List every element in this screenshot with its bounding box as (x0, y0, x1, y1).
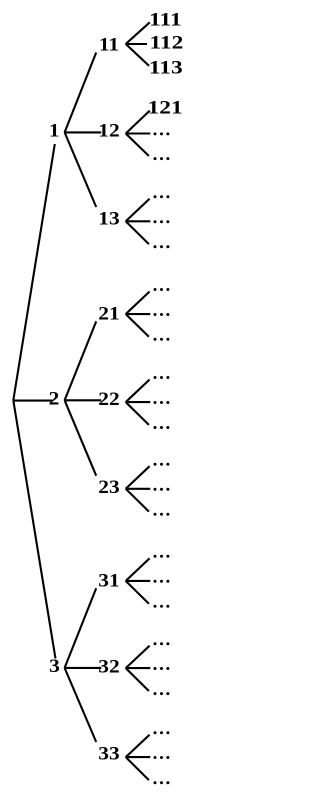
wire 12-b (126, 132, 151, 134)
svg-text:31: 31 (98, 570, 119, 591)
wire 33-b (126, 756, 151, 758)
wire 33-c (126, 757, 149, 780)
wire 3-33 (65, 668, 97, 742)
wire 11-b (126, 43, 147, 45)
leaf 13-1 dots (154, 195, 170, 198)
leaf 22-2 dots (154, 401, 170, 404)
wire 23-a (126, 466, 150, 489)
svg-text:113: 113 (149, 57, 183, 79)
wire 13-b (126, 220, 151, 222)
leaf 32-3 dots (154, 692, 170, 695)
wire root-1 (13, 144, 55, 400)
wire 1-12 (65, 131, 102, 133)
leaf 12-2 dots (154, 132, 170, 135)
wire 13-c (126, 221, 149, 244)
leaf 23-1 dots (154, 463, 170, 466)
svg-text:111: 111 (149, 8, 181, 30)
leaf 33-1 dots (154, 731, 170, 734)
wire 2-21 (65, 321, 97, 400)
leaf 33-2 dots (154, 756, 170, 759)
wire 13-a (126, 199, 150, 222)
wire 23-c (126, 489, 149, 512)
leaf 22-1 dots (154, 376, 170, 379)
svg-text:12: 12 (98, 121, 119, 142)
wire 2-22 (65, 399, 102, 401)
wire 32-c (126, 668, 149, 691)
wire 1-13 (65, 132, 97, 207)
wire 22-c (126, 402, 149, 425)
svg-text:23: 23 (98, 477, 119, 498)
svg-text:1: 1 (49, 120, 60, 141)
wire 3-31 (65, 588, 97, 668)
wire 2-23 (65, 400, 97, 475)
svg-text:22: 22 (98, 389, 119, 410)
wire 21-b (126, 313, 151, 315)
svg-text:112: 112 (150, 31, 184, 53)
leaf 31-2 dots (154, 580, 170, 583)
wire 31-b (126, 580, 151, 582)
wire root-3 (13, 400, 55, 658)
leaf 23-3 dots (154, 513, 170, 516)
wire 11-c (126, 44, 149, 66)
wire 3-32 (65, 667, 102, 669)
wire 22-a (126, 380, 150, 403)
leaf 32-2 dots (154, 667, 170, 670)
leaf 13-2 dots (154, 220, 170, 223)
leaf 22-3 dots (154, 426, 170, 429)
wire 32-b (126, 667, 151, 669)
wire 1-11 (65, 53, 97, 133)
wire 12-c (126, 134, 149, 157)
wire 12-a (126, 111, 150, 134)
svg-text:3: 3 (49, 656, 60, 677)
svg-text:13: 13 (98, 208, 119, 229)
leaf 12-3 dots (154, 157, 170, 160)
svg-text:11: 11 (99, 34, 119, 55)
leaf 23-2 dots (154, 488, 170, 491)
wire 33-a (126, 735, 150, 757)
wire 21-a (126, 292, 150, 315)
wire 22-b (126, 401, 151, 403)
wire 21-c (126, 314, 149, 337)
leaf 21-1 dots (154, 288, 170, 291)
leaf 21-3 dots (154, 338, 170, 341)
svg-text:32: 32 (98, 656, 119, 677)
leaf 31-3 dots (154, 605, 170, 608)
wire 31-a (126, 558, 150, 581)
svg-text:33: 33 (98, 743, 119, 764)
wire 23-b (126, 488, 151, 490)
svg-text:121: 121 (148, 97, 183, 119)
leaf 31-1 dots (154, 555, 170, 558)
leaf 21-2 dots (154, 313, 170, 316)
svg-text:21: 21 (98, 303, 119, 324)
wire 11-a (126, 22, 150, 44)
leaf 33-3 dots (154, 781, 170, 784)
wire 32-a (126, 646, 150, 668)
leaf 13-3 dots (154, 245, 170, 248)
wire 31-c (126, 581, 149, 604)
wire root-2 (13, 400, 52, 402)
leaf 32-1 dots (154, 642, 170, 645)
svg-text:2: 2 (49, 388, 60, 409)
